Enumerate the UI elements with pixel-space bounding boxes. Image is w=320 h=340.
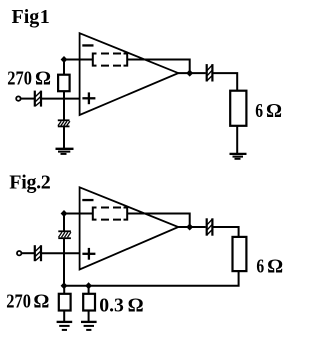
value label 6 Ohm (Fig2) (256, 256, 283, 278)
wire 6 ohm bottom to sense wire (Fig2) (64, 272, 239, 286)
wire 6 ohm to ground (Fig1) (236, 126, 238, 154)
wire input terminal to break X1 (Fig1) (21, 98, 34, 100)
junction node at inverting input (Fig2) (61, 210, 68, 217)
dashed internal box (Fig1) (93, 54, 127, 66)
resistor 0.3 ohm body (Fig2) (83, 294, 95, 311)
svg-text:Fig.2: Fig.2 (9, 172, 51, 194)
wire node to 270 ohm top (Fig2) (63, 286, 65, 294)
ground symbol under 270 ohm (Fig2) (57, 322, 73, 330)
resistor 270 ohm body (Fig2) (59, 294, 71, 311)
wire input terminal to break X3 (Fig2) (21, 252, 34, 254)
isolation break X3 on input wire (Fig2) (35, 245, 41, 261)
inverting input marker - (Fig1) (82, 44, 93, 46)
wire inverting node to op-amp dashed box (Fig1) (64, 59, 93, 61)
shield break on sense branch (Fig2) (58, 231, 71, 238)
isolation break X4 on output wire (Fig2) (207, 218, 213, 235)
wire break X4 to load corner (Fig2) (214, 227, 239, 237)
wire op-amp apex to output (Fig1) (178, 72, 206, 74)
wire inverting node to op-amp dashed box (Fig2) (64, 213, 93, 215)
wire shield break down across input wire to bottom node (Fig2) (63, 239, 65, 286)
inverting input marker - (Fig2) (82, 199, 93, 201)
svg-text:0.3: 0.3 (99, 294, 124, 316)
wire break X3 to op-amp non-inverting input (Fig2) (42, 252, 80, 254)
non-inverting input marker + (Fig1) (82, 92, 95, 104)
svg-text:Ω: Ω (128, 294, 144, 316)
svg-text:270: 270 (7, 67, 32, 89)
value label 270 Ohm (Fig2) (6, 291, 49, 313)
isolation break X1 on input wire (Fig1) (35, 91, 41, 107)
feedback wire from dashed box to output node (Fig1) (127, 60, 190, 74)
wire 0.3 ohm to ground (Fig2) (88, 311, 90, 321)
svg-text:Fig1: Fig1 (12, 6, 50, 28)
wire break X1 to op-amp non-inverting input (Fig1) (42, 98, 80, 100)
value label 6 Ohm (Fig1) (255, 100, 282, 122)
wire junction down to shield break (Fig1) (63, 99, 65, 120)
shield break on ground branch (Fig1) (58, 120, 70, 126)
wire node to 0.3 ohm top (Fig2) (88, 286, 90, 294)
wire inverting node down to shield break (Fig2) (63, 214, 65, 232)
input terminal (Fig2) (17, 251, 21, 255)
svg-text:270: 270 (6, 291, 31, 313)
ground symbol input side (Fig1) (56, 149, 74, 154)
svg-text:Ω: Ω (267, 256, 283, 278)
wire resistor top to inverting node (Fig1) (63, 60, 65, 76)
input terminal (Fig1) (16, 96, 20, 100)
non-inverting input marker + (Fig2) (82, 248, 95, 260)
ground symbol under 0.3 ohm (Fig2) (81, 322, 97, 330)
ground symbol load side (Fig1) (230, 154, 247, 159)
svg-text:6: 6 (255, 100, 263, 122)
wire op-amp apex to output (Fig2) (178, 226, 206, 228)
value label 270 Ohm (Fig1) (7, 67, 51, 89)
svg-text:6: 6 (256, 256, 264, 278)
wire 270 ohm to ground (Fig2) (63, 311, 65, 321)
bottom node over 270 ohm (Fig2) (61, 282, 68, 289)
wire break X2 to load corner (Fig1) (214, 73, 238, 90)
resistor 270 ohm body (Fig1) (58, 75, 70, 92)
feedback wire from dashed box to output node (Fig2) (127, 214, 190, 228)
wire shield break to ground (Fig1) (63, 127, 65, 149)
value label 0.3 Ohm (Fig2) (99, 294, 143, 316)
resistor 6 ohm body (Fig2) (233, 237, 247, 271)
dashed internal box (Fig2) (93, 208, 127, 220)
op-amp A2 triangle (Fig2) (80, 187, 179, 269)
wire resistor bottom to input wire junction (Fig1) (63, 92, 65, 100)
resistor 6 ohm body (Fig1) (230, 91, 246, 126)
junction node at inverting input (Fig1) (61, 56, 68, 63)
output node diamond (Fig1) (186, 70, 193, 77)
svg-text:Ω: Ω (33, 291, 49, 313)
svg-text:Ω: Ω (35, 67, 51, 89)
output node diamond (Fig2) (186, 224, 193, 231)
isolation break X2 on output wire (Fig1) (207, 64, 213, 81)
svg-text:Ω: Ω (266, 100, 282, 122)
op-amp A1 triangle (Fig1) (80, 33, 179, 115)
bottom node over 0.3 ohm (Fig2) (85, 282, 92, 289)
